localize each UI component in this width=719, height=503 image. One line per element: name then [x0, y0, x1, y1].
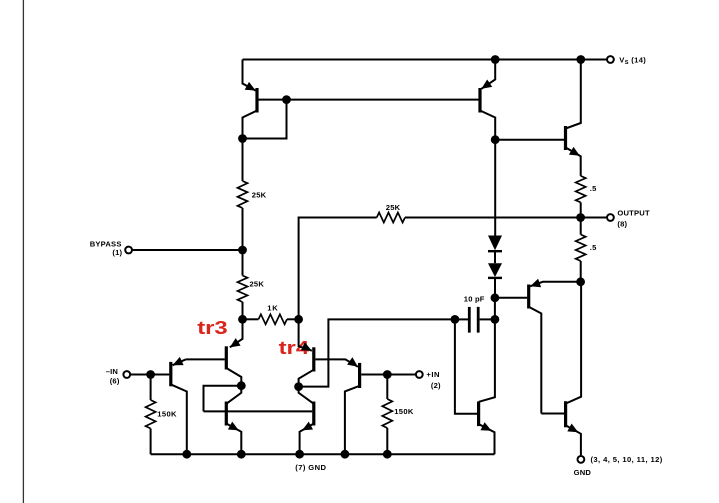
node QA base [282, 95, 291, 104]
resistor .5 upper [576, 176, 586, 203]
transistor Q1 emitter arrow [173, 357, 184, 365]
wire QA base-collector loop [243, 100, 287, 139]
node B collectors Q4 Q6 [294, 382, 303, 391]
node rail Q7 [341, 450, 350, 459]
wire +IN to 150K [386, 375, 388, 400]
transistor Q4 emitter arrow [301, 342, 312, 350]
wire mirror bases [204, 410, 313, 412]
svg-text:25K: 25K [252, 191, 267, 200]
transistor Q6 collector [299, 387, 314, 404]
wire Q3 base [186, 358, 225, 360]
diode D2 [488, 263, 502, 277]
node cap left [451, 315, 460, 324]
transistor Q9 emitter [566, 148, 581, 176]
transistor Q5 emitter arrow [228, 422, 239, 431]
svg-text:.5: .5 [590, 184, 597, 193]
node rail Q5 [237, 450, 246, 459]
wire cap right stub [480, 318, 495, 320]
transistor Q12 emitter arrow [481, 422, 492, 431]
transistor Q10 emitter arrow [530, 279, 541, 288]
terminal OUTPUT pin 8 [607, 214, 614, 221]
transistor Q11 emitter arrow [567, 424, 578, 433]
transistor Q5 emitter [226, 424, 241, 455]
resistor 25K upper [238, 181, 248, 208]
node rail Q6 [295, 450, 304, 459]
transistor Q11 bar [564, 401, 567, 427]
wire diode chain top [494, 140, 496, 236]
svg-text:(1): (1) [112, 248, 122, 257]
node A collectors Q3 Q5 [237, 381, 246, 390]
node BYPASS [238, 246, 247, 255]
node rail Q1 [182, 450, 191, 459]
node rail-QB [491, 55, 500, 64]
wire +IN stub [387, 374, 415, 376]
wire Q4 base to Q7 emitter [315, 359, 358, 366]
transistor Q7 emitter arrow [347, 357, 358, 367]
transistor Q3 bar [225, 346, 228, 369]
wire 1K right stub [287, 318, 299, 320]
wire to output node [580, 202, 582, 217]
wire Q9 base [495, 139, 564, 141]
wire Q7 base [361, 374, 387, 376]
terminal -IN pin 6 [123, 371, 130, 378]
terminal GND pins [578, 456, 585, 463]
wire node B to cap run [299, 319, 455, 386]
svg-text:BYPASS: BYPASS [90, 239, 122, 248]
svg-text:150K: 150K [394, 407, 414, 416]
transistor Q12 bar [477, 402, 480, 427]
resistor 150K left [146, 400, 156, 429]
transistor Q6 emitter [300, 424, 314, 455]
transistor QA bar [255, 88, 258, 113]
wire Q10 base [495, 297, 527, 299]
node +IN [383, 370, 392, 379]
wire 25K to bypass node [242, 208, 244, 250]
transistor Q10 bar [527, 285, 530, 309]
transistor Q1 collector [171, 384, 187, 454]
terminal BYPASS pin 1 [125, 247, 132, 254]
resistor 150K right [382, 399, 392, 428]
transistor QA emitter [243, 60, 256, 91]
svg-text:(6): (6) [110, 376, 120, 385]
node rail 150K [383, 450, 392, 459]
wire 1K left stub [243, 318, 259, 320]
node Q10 emitter [576, 277, 585, 286]
wire QA base rail [259, 99, 479, 101]
svg-text:1K: 1K [267, 304, 278, 313]
wire 25K lower to 1K node [242, 302, 244, 319]
svg-text:(3, 4, 5, 10, 11, 12): (3, 4, 5, 10, 11, 12) [591, 455, 663, 464]
page border line [22, 0, 24, 503]
wire cap left stub [455, 318, 468, 320]
transistor Q8 collector [480, 111, 495, 140]
transistor Q10 collector [529, 307, 542, 414]
resistor 1K [259, 314, 288, 324]
transistor Q4 collector [299, 370, 314, 387]
svg-text:25K: 25K [250, 279, 265, 288]
transistor Q3 emitter [230, 319, 243, 347]
wire bypass to 25K lower [242, 250, 244, 276]
transistor Q8 bar [478, 88, 481, 113]
svg-text:(8): (8) [617, 220, 627, 229]
wire ground rail [151, 453, 495, 455]
capacitor 10pF [469, 307, 478, 333]
wire -IN stub [131, 374, 151, 376]
transistor Q3 collector [226, 368, 241, 386]
svg-text:150K: 150K [157, 410, 177, 419]
transistor Q9 emitter arrow [569, 147, 580, 156]
node 1K right [294, 315, 303, 324]
svg-text:10 pF: 10 pF [464, 294, 485, 303]
node 1K left [238, 315, 247, 324]
transistor Q11 collector [566, 282, 581, 404]
node cap right [491, 315, 500, 324]
transistor Q6 emitter arrow [302, 422, 313, 431]
terminal Vs pin 14 [607, 56, 614, 63]
transistor Q4 bar [312, 347, 315, 371]
wire output to lower .5 [580, 218, 582, 235]
node -IN [146, 370, 155, 379]
wire diode to Q10 base node [494, 278, 496, 298]
node rail-Q9 [576, 55, 585, 64]
node QA collector [238, 134, 247, 143]
transistor QA emitter arrow [245, 82, 256, 91]
transistor Q9 collector [566, 60, 581, 129]
svg-text:OUTPUT: OUTPUT [617, 208, 650, 217]
transistor Q10 emitter [530, 282, 580, 287]
transistor Q5 collector [226, 386, 241, 404]
transistor Q8 emitter [481, 60, 495, 89]
wire -IN to 150K [150, 375, 152, 401]
transistor Q3 emitter arrow [230, 338, 241, 347]
wire 150K right to rail [386, 428, 388, 454]
node Q10 base [491, 293, 500, 302]
node Q8 collector [491, 135, 500, 144]
transistor Q9 bar [564, 126, 567, 150]
wire QA collector to 25K [242, 139, 244, 182]
transistor Q1 emitter [173, 359, 186, 365]
svg-text:(7) GND: (7) GND [295, 463, 326, 472]
wire V+ top rail [243, 59, 607, 61]
resistor 25K feedback [377, 213, 405, 223]
transistor Q12 collector [479, 319, 495, 401]
wire Q5 base loop [204, 386, 242, 412]
transistor Q7 bar [358, 363, 361, 388]
wire output stub [581, 217, 607, 219]
transistor Q12 emitter [479, 424, 495, 454]
transistor QA collector [243, 111, 258, 139]
wire Q12 base [455, 319, 477, 413]
wire lower .5 to Q10 node [580, 261, 582, 282]
resistor .5 lower [576, 235, 586, 262]
svg-text:25K: 25K [386, 203, 401, 212]
transistor Q4 emitter [299, 319, 312, 350]
wire Q10 base node to cap node [494, 298, 496, 320]
transistor Q6 bar [312, 402, 315, 426]
wire between diodes [494, 250, 496, 263]
transistor Q8 emitter arrow [481, 80, 492, 89]
svg-text:(2): (2) [431, 381, 441, 390]
wire Q11 base [541, 413, 564, 415]
wire bypass stub [133, 249, 243, 251]
transistor Q7 collector [345, 386, 360, 454]
transistor Q5 bar [225, 402, 228, 426]
diode D1 [488, 236, 502, 251]
wire feedback [299, 218, 581, 320]
wire 150K left to rail [150, 429, 152, 455]
svg-text:.5: .5 [590, 243, 597, 252]
svg-text:tr3: tr3 [197, 318, 228, 339]
node OUTPUT [576, 213, 585, 222]
terminal +IN pin 2 [416, 371, 423, 378]
svg-text:–IN: –IN [106, 367, 118, 376]
wire Q1 base [151, 374, 170, 376]
svg-text:+IN: +IN [426, 370, 440, 379]
svg-text:VS (14): VS (14) [619, 55, 646, 66]
transistor Q11 emitter [566, 425, 581, 455]
resistor 25K lower [238, 276, 248, 303]
svg-text:GND: GND [574, 468, 592, 477]
transistor Q1 bar [169, 362, 172, 386]
